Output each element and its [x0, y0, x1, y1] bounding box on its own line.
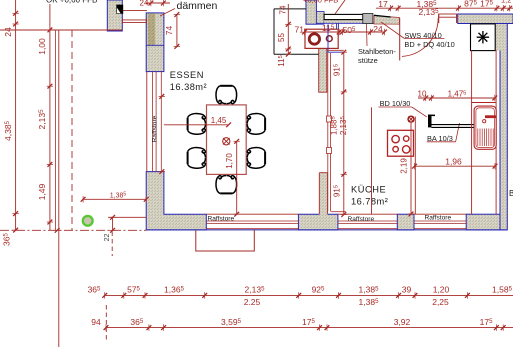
svg-text:39: 39 [402, 284, 412, 294]
svg-text:Raffstore: Raffstore [152, 115, 159, 142]
svg-text:+0,60 FFB: +0,60 FFB [303, 0, 338, 5]
svg-text:24: 24 [373, 24, 383, 34]
svg-text:24: 24 [3, 27, 13, 37]
svg-text:BD 10/30: BD 10/30 [380, 99, 411, 108]
svg-text:BD + DQ 40/10: BD + DQ 40/10 [404, 40, 454, 49]
svg-text:2,25: 2,25 [432, 297, 449, 307]
svg-text:OK +0,60 FFB: OK +0,60 FFB [46, 0, 97, 5]
svg-text:10: 10 [418, 89, 427, 98]
svg-text:Raffstore: Raffstore [425, 215, 452, 222]
svg-text:1,70: 1,70 [225, 153, 234, 169]
svg-text:Stahlbeton-: Stahlbeton- [358, 47, 396, 56]
svg-text:2.25: 2.25 [244, 297, 261, 307]
svg-text:24: 24 [140, 0, 149, 8]
svg-text:1,20: 1,20 [433, 284, 450, 294]
svg-text:3,92: 3,92 [394, 317, 411, 327]
svg-text:1,49: 1,49 [37, 183, 47, 200]
svg-text:stütze: stütze [358, 56, 378, 65]
svg-text:16.78m²: 16.78m² [351, 196, 388, 206]
svg-text:94: 94 [91, 317, 101, 327]
svg-text:1,2: 1,2 [501, 0, 511, 5]
svg-text:Raffstore: Raffstore [348, 216, 375, 223]
svg-text:2,19: 2,19 [400, 158, 409, 174]
svg-text:KÜCHE: KÜCHE [351, 184, 386, 194]
svg-text:Raffstore: Raffstore [208, 216, 235, 223]
svg-text:ESSEN: ESSEN [170, 70, 204, 80]
svg-text:dämmen: dämmen [177, 0, 218, 12]
svg-text:22: 22 [104, 234, 111, 242]
svg-text:55: 55 [277, 33, 286, 42]
svg-text:17: 17 [378, 0, 388, 9]
svg-text:1,96: 1,96 [445, 157, 462, 167]
svg-text:B: B [509, 189, 513, 198]
svg-text:74: 74 [279, 5, 288, 14]
svg-text:71: 71 [295, 25, 305, 35]
svg-text:1,00: 1,00 [37, 38, 47, 55]
svg-text:16.38m²: 16.38m² [170, 82, 207, 92]
svg-text:74: 74 [164, 26, 174, 36]
svg-text:1,45: 1,45 [211, 116, 227, 125]
